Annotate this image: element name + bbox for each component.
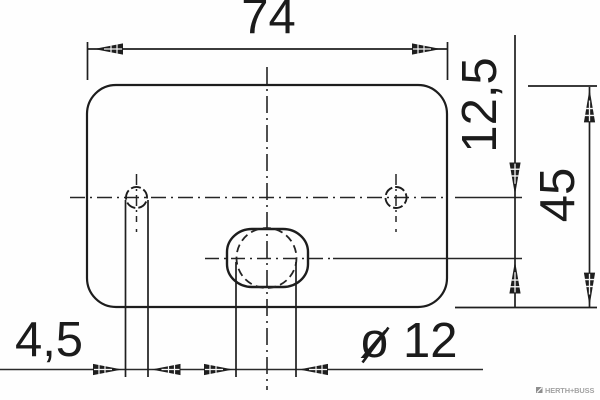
dimension 45: bottom extension line: [455, 307, 597, 309]
dimension 12,5: upper arrowhead pointing down: [509, 163, 520, 195]
left hole centre dot: [136, 229, 138, 232]
bottom dimension base line: [0, 369, 483, 371]
oval grommet outline (solid): [227, 229, 308, 287]
dimension 74: left arrowhead: [94, 43, 123, 54]
right hole circle: [383, 184, 410, 211]
dimension 74: dimension line: [88, 48, 447, 50]
dimension 4,5: left arrowhead pointing right: [93, 364, 122, 375]
svg-text:4,5: 4,5: [15, 313, 83, 367]
horizontal centerline extension right of plate at hole level (solid): [455, 197, 522, 199]
dimension 12,5: lower arrowhead pointing up: [509, 261, 520, 293]
svg-text:74: 74: [241, 0, 296, 44]
right hole vertical centerline: [395, 174, 397, 222]
dimension ø12: right extension line from circle edge: [295, 262, 297, 377]
dimension 4,5: right arrowhead pointing left: [152, 364, 181, 375]
horizontal centerline through holes (dash-dot): [70, 197, 447, 199]
dimension 45: dimension line: [589, 87, 591, 307]
horizontal centerline through oval (dash-dot): [205, 258, 332, 260]
dimension 45: top extension line: [528, 85, 597, 87]
dimension 45: bottom arrowhead pointing down: [584, 273, 595, 306]
plate outline rounded rectangle: [87, 85, 447, 307]
hidden hole circle ø12 (dashed): [237, 228, 297, 288]
svg-text:HERTH+BUSS: HERTH+BUSS: [545, 386, 594, 395]
svg-text:ø 12: ø 12: [359, 314, 457, 368]
right hole centre dot: [395, 229, 397, 232]
dimension 4,5: right extension line from hole edge: [147, 200, 149, 377]
dimension 45: top arrowhead pointing up: [584, 89, 595, 122]
dimension 4,5: left extension line from hole edge: [125, 200, 127, 377]
dimension ø12: right arrowhead pointing left: [299, 364, 328, 375]
dimension ø12: left arrowhead pointing right: [204, 364, 233, 375]
svg-text:45: 45: [531, 168, 585, 223]
left hole circle: [123, 184, 151, 212]
dimension ø12: left extension line from circle edge: [235, 262, 237, 377]
svg-text:12,5: 12,5: [453, 57, 507, 152]
logo mark diagonal: [537, 388, 542, 393]
dimension 12,5: dimension line: [514, 35, 516, 307]
vertical centerline (dash-dot): [266, 67, 268, 390]
horizontal centerline extension right of oval (solid): [333, 258, 522, 260]
dimension 74: left extension line: [87, 42, 89, 80]
logo mark square: [536, 387, 543, 393]
dimension 74: right arrowhead: [412, 43, 441, 54]
left hole vertical centerline: [136, 174, 138, 222]
dimension 74: right extension line: [447, 42, 449, 80]
dimension ø12: diameter slash overlay: [363, 328, 389, 363]
